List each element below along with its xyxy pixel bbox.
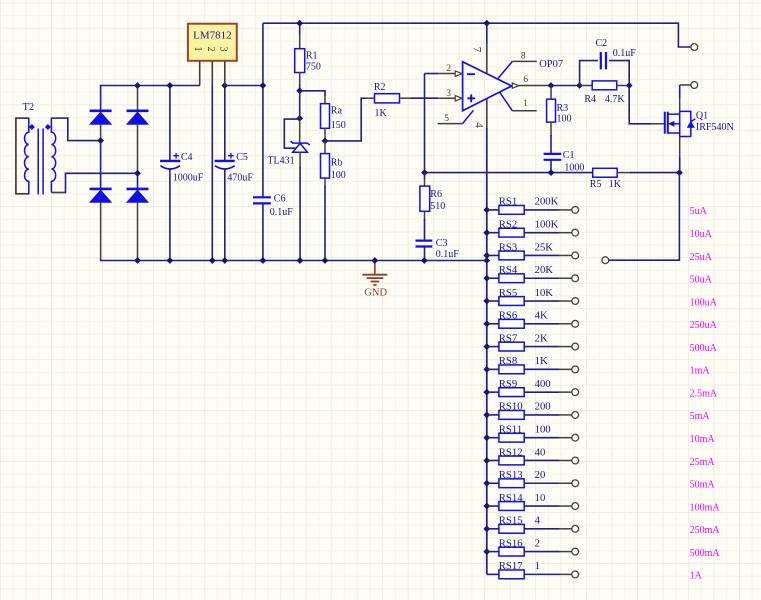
node feedback left (421, 169, 428, 176)
node ground rail GND (371, 257, 378, 264)
svg-text:RS14: RS14 (499, 492, 523, 504)
svg-text:RS4: RS4 (499, 264, 518, 276)
svg-text:500mA: 500mA (690, 548, 721, 559)
node R1 top (296, 20, 303, 27)
resistor R3 (550, 86, 552, 100)
svg-text:OP07: OP07 (539, 59, 563, 70)
svg-text:RS5: RS5 (499, 287, 517, 299)
capacitor C2 (580, 61, 598, 86)
svg-text:25uA: 25uA (690, 252, 713, 263)
svg-text:8: 8 (521, 52, 526, 62)
wire top 12V rail (263, 23, 692, 47)
node bridge tap 2 (134, 170, 141, 177)
node bridge tap 1 (97, 137, 104, 144)
node Rb ground (322, 257, 329, 264)
svg-text:R2: R2 (374, 82, 386, 93)
svg-text:4.7K: 4.7K (605, 94, 626, 105)
op-amp pin 6 lead (519, 85, 549, 87)
svg-text:TL431: TL431 (267, 155, 294, 166)
svg-text:T2: T2 (23, 102, 35, 113)
capacitor C5 (224, 86, 226, 161)
node C4 top (167, 82, 174, 89)
node bridge bottom junction (134, 257, 141, 264)
svg-text:1: 1 (523, 99, 528, 109)
terminal RS4 (572, 275, 579, 282)
wire source to selector (608, 173, 679, 261)
wire R1 junction to Ra (300, 91, 325, 96)
svg-text:0.1uF: 0.1uF (436, 249, 460, 260)
svg-text:3: 3 (446, 89, 451, 99)
terminal RS11 (572, 434, 579, 441)
resistor RS8 (483, 366, 490, 373)
node bridge top junction (134, 82, 141, 89)
svg-text:750: 750 (306, 62, 321, 73)
svg-text:0.1uF: 0.1uF (270, 207, 294, 218)
diode D4 (127, 188, 149, 191)
wire op-amp output (548, 85, 580, 87)
svg-text:0.1uF: 0.1uF (613, 48, 637, 59)
svg-text:1K: 1K (535, 355, 548, 367)
svg-text:250mA: 250mA (690, 525, 721, 536)
svg-text:RS11: RS11 (499, 424, 522, 436)
svg-text:2: 2 (205, 47, 216, 52)
transistor Q1 channel bar (667, 112, 669, 134)
transformer T2 secondary winding (51, 118, 55, 193)
svg-text:20K: 20K (535, 264, 554, 276)
resistor RS17 (487, 573, 499, 575)
svg-text:1A: 1A (690, 571, 703, 582)
resistor R5 (593, 168, 618, 177)
transformer T2 secondary polarity dot (45, 124, 51, 130)
transformer T2 primary winding (25, 118, 29, 194)
svg-text:RS17: RS17 (499, 560, 523, 572)
svg-text:RS3: RS3 (499, 241, 517, 253)
terminal RS3 (572, 252, 579, 259)
resistor RS11 (483, 434, 490, 441)
resistor RS7 (483, 343, 490, 350)
terminal RS10 (572, 412, 579, 419)
svg-text:RS9: RS9 (499, 378, 517, 390)
svg-text:Q1: Q1 (696, 111, 708, 122)
wire to op-amp pin 2 (425, 73, 439, 75)
svg-text:1mA: 1mA (690, 366, 711, 377)
svg-text:2: 2 (446, 64, 451, 74)
wire between D2 and tap (137, 125, 139, 174)
wire primary left vertical (15, 117, 17, 194)
svg-text:5uA: 5uA (690, 206, 708, 217)
svg-text:RS16: RS16 (499, 537, 523, 549)
svg-text:RS6: RS6 (499, 310, 518, 322)
capacitor C6 (253, 196, 271, 198)
svg-text:RS12: RS12 (499, 446, 523, 458)
wire feedback rail (425, 172, 593, 174)
wire between D1 and tap (100, 125, 102, 141)
op-amp pin 8 stub (497, 61, 512, 79)
diode D3 (90, 188, 112, 191)
wire bridge column 1 upper (100, 85, 102, 111)
svg-text:250uA: 250uA (690, 320, 718, 331)
svg-text:25K: 25K (535, 241, 554, 253)
op-amp plus sign (467, 94, 475, 102)
resistor R4 (580, 85, 593, 87)
terminal RS9 (572, 389, 579, 396)
resistor Rb (324, 141, 326, 154)
svg-text:2: 2 (535, 537, 540, 549)
diode TL431 (291, 141, 310, 145)
wire feedback vertical (424, 74, 426, 173)
wire source down (679, 137, 681, 159)
svg-text:Rb: Rb (331, 158, 343, 169)
svg-text:100K: 100K (535, 218, 559, 230)
svg-text:100: 100 (331, 170, 346, 181)
svg-text:C3: C3 (436, 238, 448, 249)
wire TL431 ref loop (284, 119, 299, 148)
svg-text:RS10: RS10 (499, 401, 523, 413)
terminal selector common (602, 257, 609, 264)
wire primary bottom stub (16, 193, 30, 195)
svg-text:C2: C2 (596, 38, 608, 49)
terminal RS17 (572, 571, 579, 578)
op-amp pin 5 stub (438, 123, 463, 125)
resistor RS10 (483, 412, 490, 419)
terminal output negative (691, 82, 698, 89)
svg-text:2K: 2K (535, 332, 548, 344)
resistor RS16 (483, 548, 490, 555)
svg-text:100: 100 (557, 113, 572, 124)
svg-text:5mA: 5mA (690, 411, 711, 422)
terminal RS16 (572, 548, 579, 555)
capacitor C4 (169, 86, 171, 161)
node source junction (676, 169, 683, 176)
transistor Q1 source stub (668, 132, 680, 134)
resistor RS12 (483, 457, 490, 464)
node C4 bottom (167, 257, 174, 264)
svg-text:R6: R6 (430, 189, 442, 200)
svg-text:1: 1 (535, 560, 540, 572)
svg-text:100mA: 100mA (690, 502, 721, 513)
op-amp pin 4 lead (486, 99, 488, 130)
svg-text:1K: 1K (375, 108, 388, 119)
svg-text:10: 10 (535, 492, 546, 504)
resistor RS2 (483, 229, 490, 236)
svg-text:200: 200 (535, 401, 551, 413)
svg-text:C1: C1 (563, 150, 575, 161)
node C5 top (221, 82, 228, 89)
wire bridge top rail (101, 85, 200, 87)
svg-text:RS15: RS15 (499, 515, 523, 527)
svg-text:R1: R1 (306, 51, 318, 62)
transistor Q1 drain stub (668, 113, 680, 115)
resistor RS9 (483, 389, 490, 396)
svg-text:IRF540N: IRF540N (696, 122, 734, 133)
wire gate from R4 (629, 86, 651, 124)
node Ra Rb junction (322, 138, 329, 145)
svg-text:500uA: 500uA (690, 343, 718, 354)
resistor RS5 (483, 298, 490, 305)
node TL431 ref junction (296, 115, 303, 122)
node bus ground rail (483, 257, 490, 264)
capacitor C3 (416, 240, 433, 242)
node TL431 anode ground (297, 257, 304, 264)
op-amp pin 6 arrow (512, 83, 519, 88)
resistor Ra (324, 95, 326, 104)
svg-text:200K: 200K (535, 196, 559, 208)
terminal RS1 (572, 207, 579, 214)
wire D1-D3 mid (100, 141, 102, 189)
svg-text:510: 510 (430, 201, 445, 212)
wire bridge column 2 lower (137, 202, 139, 260)
terminal output positive (691, 44, 698, 51)
svg-text:6: 6 (523, 75, 528, 85)
svg-text:25mA: 25mA (690, 457, 716, 468)
transistor Q1 body diode (680, 111, 691, 121)
terminal RS6 (572, 320, 579, 327)
node C1 bottom (548, 169, 555, 176)
wire D2-D4 mid (137, 173, 139, 189)
svg-text:3: 3 (217, 47, 228, 52)
svg-text:40: 40 (535, 446, 546, 458)
wire primary top stub (16, 117, 29, 119)
resistor R6 (424, 173, 426, 180)
svg-text:R3: R3 (557, 103, 569, 114)
node R4 right (626, 82, 633, 89)
node 12V output junction (260, 82, 267, 89)
wire R5 to source (630, 172, 679, 174)
terminal RS15 (572, 525, 579, 532)
svg-text:50uA: 50uA (690, 275, 713, 286)
svg-text:1K: 1K (609, 179, 622, 190)
svg-text:5: 5 (444, 114, 449, 124)
wire TL431 cathode (299, 118, 301, 142)
terminal RS2 (572, 229, 579, 236)
wire regulator ground down (211, 86, 213, 261)
terminal RS5 (572, 298, 579, 305)
svg-text:2.5mA: 2.5mA (690, 388, 718, 399)
svg-text:470uF: 470uF (227, 173, 253, 184)
svg-text:R4: R4 (584, 94, 596, 105)
svg-text:Ra: Ra (331, 106, 343, 117)
svg-text:4K: 4K (535, 310, 548, 322)
svg-text:RS2: RS2 (499, 218, 517, 230)
wire R2 to op-amp pin 3 (411, 97, 438, 99)
svg-text:LM7812: LM7812 (193, 30, 232, 42)
terminal RS13 (572, 480, 579, 487)
wire 12V riser (262, 23, 264, 197)
op-amp U2 triangle (463, 62, 512, 111)
svg-text:100uA: 100uA (690, 297, 718, 308)
resistor RS4 (483, 275, 490, 282)
node C6 ground (260, 257, 267, 264)
resistor RS15 (483, 525, 490, 532)
wire secondary top lead (51, 117, 67, 119)
svg-text:RS13: RS13 (499, 469, 523, 481)
svg-text:7: 7 (471, 47, 483, 53)
transformer T2 primary polarity dot (29, 124, 35, 130)
node C3 ground (421, 257, 428, 264)
svg-text:20: 20 (535, 469, 546, 481)
diode D2 (127, 110, 149, 113)
wire secondary bottom tap to bridge (66, 173, 138, 193)
wire drain to terminal (680, 84, 692, 86)
svg-text:RS7: RS7 (499, 332, 518, 344)
resistor RS3 (483, 252, 490, 259)
node regulator ground (209, 257, 216, 264)
regulator pin 3 lead (224, 61, 226, 86)
resistor RS13 (483, 480, 490, 487)
ground symbol (374, 261, 376, 275)
svg-text:10mA: 10mA (690, 434, 716, 445)
node R1 bottom (296, 87, 303, 94)
terminal RS14 (572, 503, 579, 510)
regulator U1 LM7812 body (188, 24, 237, 61)
transformer T2 core (37, 129, 39, 195)
resistor R2 (365, 97, 375, 99)
svg-text:GND: GND (364, 288, 387, 299)
diode D1 (90, 110, 112, 113)
regulator pin 1 lead (199, 61, 201, 86)
transistor Q1 gate arrow and stub (669, 121, 675, 126)
wire R1 to TL431 (299, 91, 301, 119)
svg-text:C6: C6 (274, 194, 286, 205)
capacitor C1 (544, 153, 562, 155)
op-amp pin 2 arrow (455, 71, 462, 76)
terminal RS8 (572, 366, 579, 373)
svg-text:10uA: 10uA (690, 229, 713, 240)
resistor RS14 (483, 503, 490, 510)
node R3 top (548, 82, 555, 89)
svg-text:1000uF: 1000uF (173, 173, 204, 184)
wire ladder bus (486, 128, 488, 574)
svg-text:RS8: RS8 (499, 355, 517, 367)
wire secondary top tap to bridge (68, 117, 101, 140)
op-amp minus sign (467, 73, 475, 75)
node pin 7 rail (483, 20, 490, 27)
resistor RS1 (483, 207, 490, 214)
resistor R1 (299, 23, 301, 34)
wire 12V output (225, 85, 263, 87)
svg-text:4: 4 (473, 122, 485, 128)
svg-text:C4: C4 (181, 152, 193, 163)
svg-text:50mA: 50mA (690, 480, 716, 491)
regulator pin 2 lead (211, 61, 213, 86)
wire ground rail (101, 260, 487, 262)
wire bridge column 1 lower (100, 202, 102, 261)
svg-text:C5: C5 (236, 152, 248, 163)
wire secondary bottom jog (51, 192, 66, 194)
svg-text:RS1: RS1 (499, 196, 517, 208)
svg-text:100: 100 (535, 424, 551, 436)
op-amp pin 7 lead (486, 23, 488, 44)
svg-text:150: 150 (331, 120, 346, 131)
svg-text:10K: 10K (535, 287, 554, 299)
node R4 left (576, 82, 583, 89)
svg-text:R5: R5 (590, 179, 602, 190)
resistor RS6 (483, 320, 490, 327)
wire divider to R2 (325, 98, 366, 141)
svg-text:4: 4 (535, 515, 541, 527)
terminal RS12 (572, 457, 579, 464)
svg-text:1: 1 (192, 47, 203, 52)
node C5 bottom (221, 257, 228, 264)
terminal RS7 (572, 343, 579, 350)
svg-text:400: 400 (535, 378, 551, 390)
op-amp pin 1 stub (500, 92, 513, 111)
op-amp pin 3 arrow (455, 96, 462, 101)
transistor Q1 right bar (679, 111, 681, 136)
transistor Q1 gate bar (664, 112, 666, 134)
wire bridge column 2 upper (137, 86, 139, 111)
